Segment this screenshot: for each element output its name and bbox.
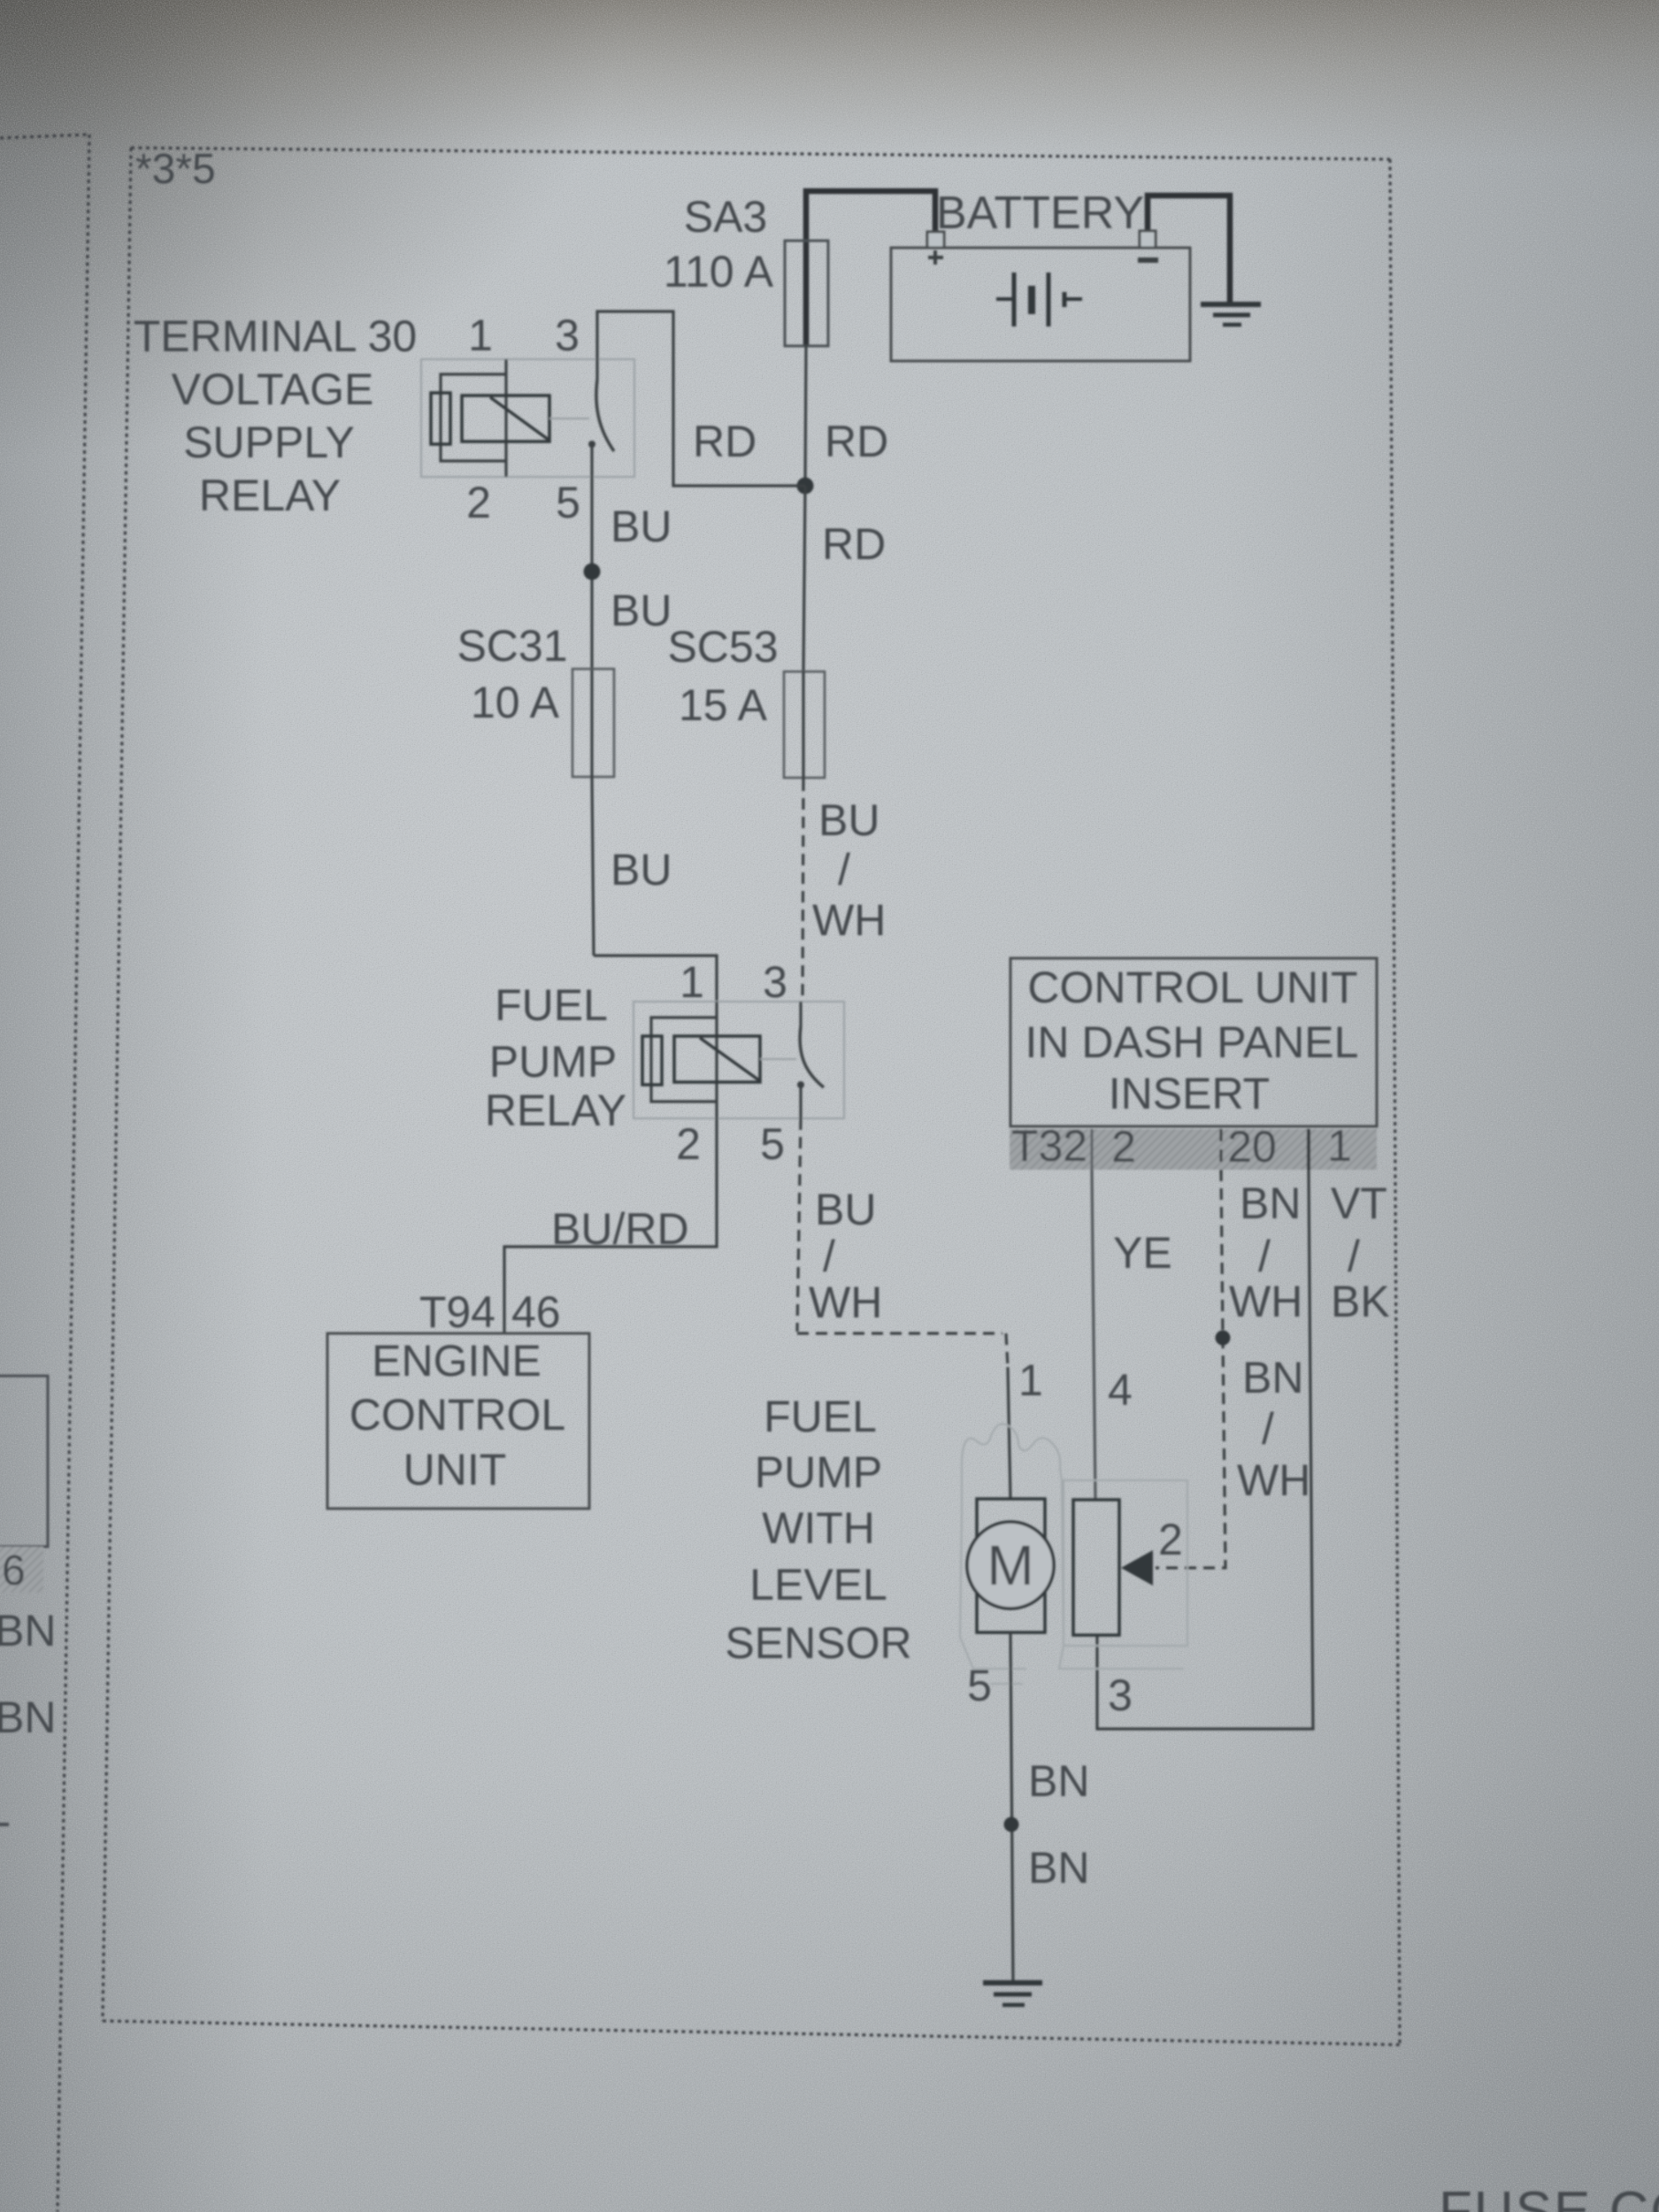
node splice on BU wire xyxy=(584,564,601,580)
wire BU/WH dashed relay pin5 to pump pin1 xyxy=(797,1118,1008,1367)
svg-text:/: / xyxy=(1262,1404,1274,1454)
terminal 30 voltage supply relay label xyxy=(134,311,417,520)
fuel pump relay label xyxy=(485,980,626,1135)
node junction RD xyxy=(797,478,814,495)
neighbour ground tick xyxy=(0,1823,9,1826)
relay K1 terminal30 outline box xyxy=(421,359,634,477)
ground symbol (pump) xyxy=(983,1983,1042,2005)
fuse SA3 xyxy=(785,241,828,346)
svg-text:BN: BN xyxy=(1242,1353,1303,1402)
svg-text:BU/RD: BU/RD xyxy=(551,1204,689,1254)
svg-text:BN: BN xyxy=(1028,1756,1089,1806)
engine control unit text xyxy=(349,1336,565,1494)
svg-text:110 A: 110 A xyxy=(664,247,774,296)
main dashed border frame xyxy=(103,148,1400,2045)
relay K2 coil bracket xyxy=(651,1018,717,1102)
relay K1 pin5 contact xyxy=(588,441,595,448)
neighbour connector hatched band xyxy=(0,1547,43,1593)
relay K2 coil diagonal xyxy=(700,1038,759,1080)
svg-text:FUEL: FUEL xyxy=(495,980,608,1030)
svg-text:PUMP: PUMP xyxy=(755,1448,882,1497)
svg-text:2: 2 xyxy=(1111,1122,1136,1171)
pump housing outline (faint) xyxy=(960,1424,1184,1684)
wire BN/WH dashed pin20 down xyxy=(1156,1170,1225,1568)
svg-text:PUMP: PUMP xyxy=(489,1037,617,1087)
node splice on BN/WH wire xyxy=(1216,1331,1231,1346)
svg-text:M: M xyxy=(987,1533,1033,1597)
wire BU through SC31 xyxy=(592,671,594,956)
relay K2 coil center line xyxy=(715,1002,718,1118)
svg-text:2: 2 xyxy=(1158,1515,1183,1564)
svg-text:*3*5: *3*5 xyxy=(135,146,216,193)
relay K1 coil center line xyxy=(504,359,507,477)
svg-text:20: 20 xyxy=(1227,1122,1277,1171)
level sensor wiper arrow pin2 xyxy=(1121,1550,1153,1586)
svg-text:2: 2 xyxy=(676,1119,701,1169)
svg-text:BN: BN xyxy=(0,1606,56,1655)
ground symbol (battery) xyxy=(1201,304,1261,325)
battery + terminal xyxy=(927,232,944,248)
wire RD through SC53 xyxy=(802,672,804,780)
wire RD battery to junction xyxy=(805,345,806,486)
svg-text:CONTROL: CONTROL xyxy=(349,1390,565,1440)
svg-text:BU: BU xyxy=(611,502,672,551)
neighbouring page frame (left) xyxy=(0,134,89,2212)
svg-text:BU: BU xyxy=(818,795,879,845)
svg-text:RD: RD xyxy=(822,519,886,569)
svg-text:6: 6 xyxy=(2,1548,26,1594)
battery + polarity mark xyxy=(928,250,943,265)
svg-text:1: 1 xyxy=(1327,1121,1352,1171)
svg-text:ENGINE: ENGINE xyxy=(372,1336,541,1386)
svg-text:3: 3 xyxy=(1108,1671,1133,1720)
svg-text:SENSOR: SENSOR xyxy=(725,1618,911,1668)
svg-text:RD: RD xyxy=(693,417,757,466)
relay K1 coil body xyxy=(462,396,549,442)
svg-text:WH: WH xyxy=(812,895,886,945)
svg-text:5: 5 xyxy=(760,1119,785,1169)
battery cell symbol xyxy=(996,273,1082,326)
svg-text:SC53: SC53 xyxy=(667,622,778,672)
relay K1 mechanical link xyxy=(549,418,589,419)
battery negative thick wire to ground xyxy=(1148,196,1230,302)
svg-text:BATTERY: BATTERY xyxy=(936,188,1144,239)
relay K1 coil left terminal block xyxy=(431,393,450,444)
svg-text:BU: BU xyxy=(611,845,672,895)
svg-text:SA3: SA3 xyxy=(684,192,768,242)
relay K1 pin3 stub xyxy=(595,357,598,380)
svg-text:/: / xyxy=(823,1232,835,1281)
svg-text:T32: T32 xyxy=(1011,1121,1087,1171)
wire RD junction down to SC53 xyxy=(803,486,805,672)
svg-text:BN: BN xyxy=(1240,1179,1301,1228)
svg-text:46: 46 xyxy=(511,1287,561,1337)
wire YE pin2 to level sensor xyxy=(1092,1170,1095,1500)
svg-text:VOLTAGE: VOLTAGE xyxy=(172,365,374,414)
relay K1 coil bracket xyxy=(441,374,506,461)
connector divider at pin2 xyxy=(1091,1129,1094,1170)
wire VT/BK pin1 to sensor pin3 xyxy=(1097,1170,1313,1729)
svg-text:BN: BN xyxy=(0,1693,56,1742)
battery box xyxy=(891,248,1190,361)
svg-text:BU: BU xyxy=(611,586,672,635)
control unit in dash panel insert box xyxy=(1010,958,1377,1126)
control unit text xyxy=(1025,963,1359,1118)
svg-text:WH: WH xyxy=(1229,1277,1302,1326)
svg-text:BU: BU xyxy=(815,1185,876,1234)
svg-text:RD: RD xyxy=(825,417,888,466)
relay K2 coil left terminal block xyxy=(642,1036,662,1085)
svg-text:10 A: 10 A xyxy=(471,678,560,727)
fuel pump label block xyxy=(725,1392,911,1668)
svg-text:2: 2 xyxy=(466,478,491,527)
svg-text:BN: BN xyxy=(1028,1843,1089,1893)
svg-text:YE: YE xyxy=(1113,1228,1172,1278)
connector T32 hatched band xyxy=(1010,1129,1377,1170)
svg-text:1: 1 xyxy=(680,957,704,1007)
wire relay pin3 loop to RD junction xyxy=(597,311,805,486)
svg-text:WH: WH xyxy=(809,1278,882,1327)
svg-text:RELAY: RELAY xyxy=(199,471,341,520)
relay K2 pin5 stub xyxy=(799,1085,802,1118)
svg-text:/: / xyxy=(838,845,850,895)
fuse SC31 xyxy=(572,669,614,777)
wire BU/WH dashed SC53 to fuel pump relay pin3 xyxy=(803,780,803,1002)
connector divider dashed at pin20 xyxy=(1219,1129,1222,1175)
relay K1 coil diagonal xyxy=(490,397,549,440)
svg-text:/: / xyxy=(1258,1232,1271,1281)
relay K2 mechanical link xyxy=(760,1058,796,1060)
fuse SC53 xyxy=(784,672,825,778)
svg-text:WITH: WITH xyxy=(762,1503,875,1553)
svg-text:FUSE COLO: FUSE COLO xyxy=(1439,2181,1659,2212)
svg-text:4: 4 xyxy=(1108,1365,1133,1415)
svg-text:FUEL: FUEL xyxy=(764,1392,877,1441)
svg-text:1: 1 xyxy=(1018,1356,1043,1405)
relay K2 fuel pump outline box xyxy=(634,1002,844,1118)
pump motor M1 frame xyxy=(977,1499,1045,1632)
connector divider at pin1 xyxy=(1307,1129,1310,1170)
relay K2 coil body xyxy=(674,1036,760,1082)
svg-text:RELAY: RELAY xyxy=(485,1086,626,1135)
neighbour diagram fragment: box xyxy=(0,1376,48,1547)
relay K1 pin5 stub xyxy=(590,444,593,477)
relay K2 switch blade xyxy=(800,1026,824,1087)
svg-text:LEVEL: LEVEL xyxy=(749,1560,887,1609)
svg-text:3: 3 xyxy=(763,957,787,1007)
svg-text:SC31: SC31 xyxy=(457,621,567,671)
wire BU relay pin5 down xyxy=(590,477,593,671)
level sensor resistor body xyxy=(1073,1500,1119,1635)
svg-text:5: 5 xyxy=(967,1661,992,1710)
relay K1 switch blade xyxy=(596,380,614,451)
pump motor M1 circle xyxy=(967,1522,1054,1609)
wire BU/RD relay pin2 to ECU xyxy=(504,1118,717,1333)
battery - terminal xyxy=(1140,231,1156,248)
level sensor outline box (faint) xyxy=(1064,1480,1187,1646)
svg-text:CONTROL UNIT: CONTROL UNIT xyxy=(1027,963,1357,1012)
svg-text:5: 5 xyxy=(556,478,580,527)
svg-text:T94: T94 xyxy=(419,1287,495,1337)
engine control unit box xyxy=(327,1333,589,1509)
svg-text:INSERT: INSERT xyxy=(1109,1069,1270,1118)
wire BU into fuel pump relay pin1 xyxy=(594,956,717,1002)
svg-text:TERMINAL 30: TERMINAL 30 xyxy=(134,311,417,361)
svg-text:/: / xyxy=(1348,1232,1360,1281)
svg-text:UNIT: UNIT xyxy=(403,1445,507,1494)
svg-text:IN DASH PANEL: IN DASH PANEL xyxy=(1025,1018,1359,1067)
node splice on BN wire xyxy=(1004,1817,1019,1832)
svg-text:BK: BK xyxy=(1331,1277,1390,1326)
wire pump pin1 solid xyxy=(1008,1367,1010,1499)
svg-text:VT: VT xyxy=(1331,1179,1387,1228)
svg-text:1: 1 xyxy=(468,311,493,360)
relay K2 pin3 stub xyxy=(799,1002,802,1026)
battery - polarity mark xyxy=(1138,257,1158,263)
wire BN pump pin5 to ground xyxy=(1010,1632,1013,1983)
relay K2 pin5 contact xyxy=(797,1081,804,1088)
svg-text:WH: WH xyxy=(1237,1455,1310,1505)
svg-text:SUPPLY: SUPPLY xyxy=(183,418,355,467)
battery feed thick wire (SA3 top to battery +) xyxy=(806,191,935,345)
svg-text:3: 3 xyxy=(555,311,580,360)
svg-text:15 A: 15 A xyxy=(679,680,768,730)
